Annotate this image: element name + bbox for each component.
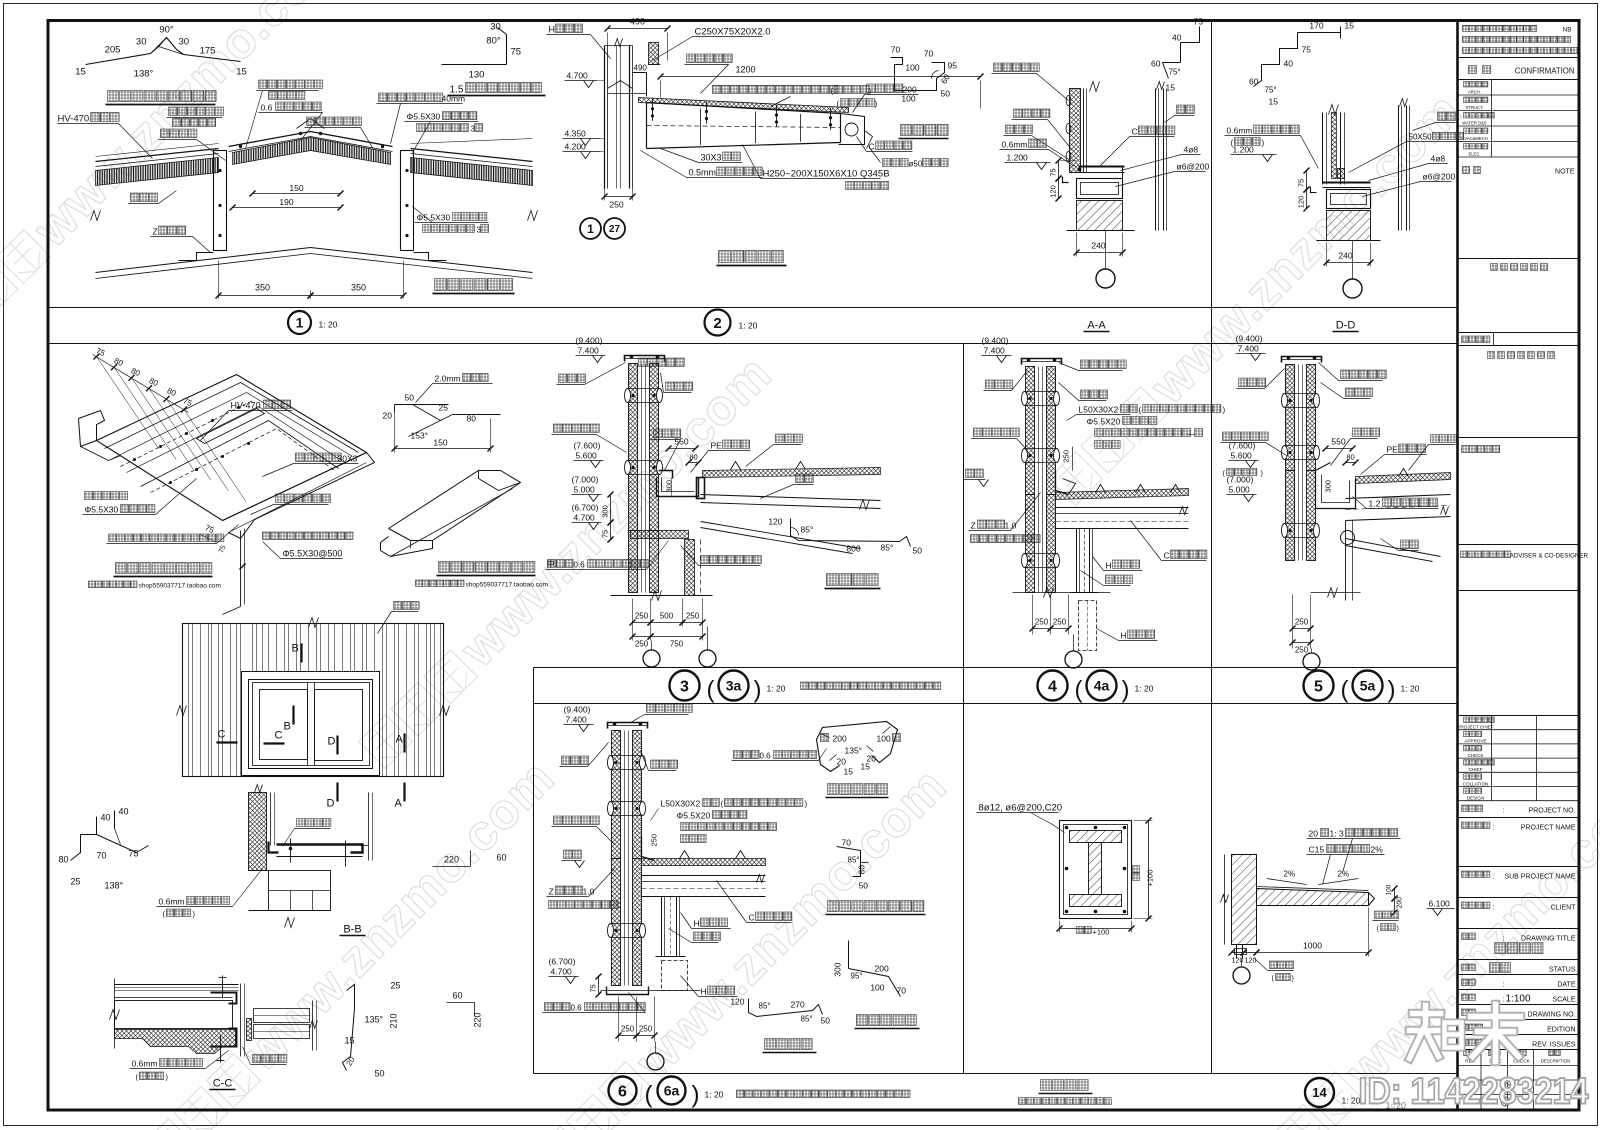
3D view: roof gutter eave node xyxy=(93,355,189,413)
svg-text:75: 75 xyxy=(589,984,598,992)
svg-text:1: 20: 1: 20 xyxy=(319,320,338,330)
svg-text:B: B xyxy=(284,721,291,733)
svg-text:85°: 85° xyxy=(801,525,814,535)
svg-text:60: 60 xyxy=(1249,77,1259,87)
circled 1 xyxy=(288,311,311,334)
svg-text:0.6mm: 0.6mm xyxy=(1227,126,1253,136)
svg-text:): ) xyxy=(1388,677,1396,704)
svg-text:138°: 138° xyxy=(134,69,154,80)
svg-text:+100: +100 xyxy=(1146,870,1155,887)
band note after 3 xyxy=(801,682,941,690)
svg-text:100: 100 xyxy=(901,94,915,104)
svg-text:550: 550 xyxy=(1331,437,1345,447)
svg-text:C: C xyxy=(869,142,875,152)
svg-text:135°: 135° xyxy=(365,1015,384,1025)
svg-text:6a: 6a xyxy=(664,1083,680,1099)
svg-text:PROJECT NO.: PROJECT NO. xyxy=(1529,808,1576,815)
svg-text:4.700: 4.700 xyxy=(567,71,589,81)
svg-text:80: 80 xyxy=(689,453,697,462)
svg-text:(: ( xyxy=(837,100,840,109)
svg-text:30: 30 xyxy=(179,37,190,48)
svg-text:1000: 1000 xyxy=(1303,941,1322,951)
svg-text:350: 350 xyxy=(351,283,366,293)
divider: top title band bottom xyxy=(48,343,1458,345)
svg-text:(6.700): (6.700) xyxy=(572,503,599,513)
svg-text:15: 15 xyxy=(861,762,871,772)
svg-text:2%: 2% xyxy=(1371,845,1384,855)
svg-text:135°: 135° xyxy=(845,746,863,756)
svg-text:14: 14 xyxy=(1312,1085,1327,1100)
svg-text:4.200: 4.200 xyxy=(565,142,587,152)
svg-text:138°: 138° xyxy=(105,881,124,891)
svg-text:60: 60 xyxy=(1151,59,1161,69)
svg-text:40: 40 xyxy=(1284,59,1294,69)
svg-text:750: 750 xyxy=(670,640,684,649)
svg-text:): ) xyxy=(1397,926,1399,933)
svg-text:15: 15 xyxy=(1269,97,1279,107)
svg-text:250: 250 xyxy=(1062,450,1071,463)
svg-text::: : xyxy=(1503,808,1505,815)
flat-seal profile (right of panel 3) xyxy=(791,519,900,542)
circled 4 (4a) xyxy=(1038,671,1068,701)
svg-text:C: C xyxy=(1132,127,1138,137)
svg-text:L50X30X2: L50X30X2 xyxy=(661,799,701,809)
svg-text:(: ( xyxy=(721,800,724,809)
svg-text:H: H xyxy=(1106,561,1112,571)
svg-text:70: 70 xyxy=(97,851,107,861)
svg-text:): ) xyxy=(1223,406,1226,415)
svg-text:(7.000): (7.000) xyxy=(1227,475,1254,485)
seal trim profile (panel 6) xyxy=(749,999,823,1017)
svg-text:550: 550 xyxy=(674,437,688,447)
svg-text:COLLATION: COLLATION xyxy=(1463,781,1489,786)
svg-text:Φ5.5X30: Φ5.5X30 xyxy=(85,505,119,515)
svg-text:120: 120 xyxy=(1297,196,1306,209)
svg-text:DATE: DATE xyxy=(1557,982,1575,989)
svg-text:50: 50 xyxy=(375,1069,385,1079)
svg-text:shop559037717.taobao.com: shop559037717.taobao.com xyxy=(466,582,548,589)
svg-text:WATER D&S: WATER D&S xyxy=(1462,121,1487,126)
svg-text:120: 120 xyxy=(730,997,744,1007)
svg-text:205: 205 xyxy=(105,45,121,56)
svg-text:0.5mm: 0.5mm xyxy=(689,168,717,178)
mini gutter title xyxy=(901,125,949,136)
parapet cap label xyxy=(734,751,760,759)
svg-text:4.700: 4.700 xyxy=(551,967,573,977)
svg-text:7.400: 7.400 xyxy=(1238,344,1260,354)
svg-text::: : xyxy=(1503,982,1505,989)
svg-text:0.6mm: 0.6mm xyxy=(132,1059,158,1069)
svg-text:270: 270 xyxy=(791,1000,805,1010)
svg-text:—: — xyxy=(1187,430,1195,439)
B-B section xyxy=(249,793,267,871)
svg-text:D-D: D-D xyxy=(1336,320,1356,332)
svg-text:120: 120 xyxy=(1049,185,1058,198)
svg-text:HVAC&MECH: HVAC&MECH xyxy=(1461,136,1487,141)
svg-text:5: 5 xyxy=(1314,678,1323,695)
svg-text:300: 300 xyxy=(1324,480,1333,493)
svg-text:0.6: 0.6 xyxy=(574,561,586,570)
svg-text:20: 20 xyxy=(383,411,393,421)
svg-text:60: 60 xyxy=(497,853,507,863)
svg-text:): ) xyxy=(1122,677,1130,704)
svg-text:A: A xyxy=(395,798,403,810)
svg-text:25: 25 xyxy=(391,981,401,991)
svg-text:4.350: 4.350 xyxy=(565,129,587,139)
svg-text:(9.400): (9.400) xyxy=(982,336,1009,346)
svg-text:250: 250 xyxy=(650,834,659,847)
panel 1 main ridge section drawing xyxy=(96,149,219,162)
flashing profile near C-C xyxy=(347,985,355,1009)
svg-text:ø6@200: ø6@200 xyxy=(1177,162,1210,172)
gable support title xyxy=(828,901,924,912)
svg-text:20: 20 xyxy=(1309,829,1319,839)
svg-text:Z: Z xyxy=(153,227,158,237)
svg-text:H: H xyxy=(701,987,707,997)
divider: middle title band xyxy=(534,667,1458,669)
3D view: eave support trim detail xyxy=(395,404,449,406)
svg-text::: : xyxy=(1499,446,1501,455)
svg-text:6: 6 xyxy=(618,1083,627,1100)
svg-text:4ø8: 4ø8 xyxy=(1431,154,1446,164)
registration plus marks xyxy=(1501,1083,1510,1092)
svg-text:220: 220 xyxy=(444,855,459,865)
svg-text:250: 250 xyxy=(635,640,649,649)
svg-text:DESIGN: DESIGN xyxy=(1467,796,1485,801)
svg-text:800: 800 xyxy=(846,544,860,554)
svg-text:250: 250 xyxy=(635,612,649,621)
svg-text:(: ( xyxy=(1139,406,1142,415)
svg-text:20: 20 xyxy=(837,757,847,767)
svg-text:70: 70 xyxy=(891,45,901,55)
profile small mid-left xyxy=(81,817,97,835)
svg-text:Z: Z xyxy=(971,521,976,531)
svg-text:90°: 90° xyxy=(159,25,174,36)
svg-text:15: 15 xyxy=(345,1036,355,1046)
svg-text:A: A xyxy=(396,734,404,746)
svg-text:(7.600): (7.600) xyxy=(574,441,601,451)
svg-text:): ) xyxy=(805,800,808,809)
section D-D xyxy=(1298,32,1341,34)
svg-text:85°: 85° xyxy=(801,1015,813,1024)
svg-text:250: 250 xyxy=(1035,618,1049,627)
svg-text:D: D xyxy=(328,736,336,748)
svg-text:250: 250 xyxy=(639,1025,653,1034)
C-C section xyxy=(115,984,239,986)
svg-text:1.2: 1.2 xyxy=(1369,499,1381,509)
steel column wrap section xyxy=(1060,821,1132,919)
svg-text:300: 300 xyxy=(665,480,674,493)
circled 5 (5a) xyxy=(1304,671,1334,701)
svg-text:8ø12, ø6@200,C20: 8ø12, ø6@200,C20 xyxy=(979,803,1063,814)
svg-text:500: 500 xyxy=(660,612,674,621)
svg-text:85°: 85° xyxy=(759,1002,771,1011)
svg-text:130: 130 xyxy=(469,70,485,81)
svg-text:0.6: 0.6 xyxy=(760,752,772,761)
divider: top row bottom xyxy=(48,307,1458,309)
svg-text:100: 100 xyxy=(905,63,919,73)
svg-text:5.000: 5.000 xyxy=(574,485,596,495)
svg-text:170: 170 xyxy=(1309,21,1323,31)
svg-text:250: 250 xyxy=(609,200,623,210)
svg-text:75: 75 xyxy=(1297,179,1306,187)
svg-text:153°: 153° xyxy=(411,431,429,441)
svg-text:1200: 1200 xyxy=(735,65,755,75)
svg-text:1: 20: 1: 20 xyxy=(739,321,758,331)
svg-text:490: 490 xyxy=(630,17,645,27)
svg-text:H: H xyxy=(1121,631,1127,641)
svg-text:ID: 1142283214: ID: 1142283214 xyxy=(1359,1071,1589,1112)
title block xyxy=(1463,25,1537,31)
svg-text:75: 75 xyxy=(511,47,522,58)
svg-text:200: 200 xyxy=(875,964,889,974)
svg-text::: : xyxy=(1493,905,1495,912)
svg-text:30: 30 xyxy=(136,37,147,48)
svg-text:3: 3 xyxy=(680,678,689,695)
svg-text:1: 20: 1: 20 xyxy=(1135,684,1154,694)
svg-text:(6.700): (6.700) xyxy=(549,957,576,967)
svg-text:(: ( xyxy=(831,87,834,96)
svg-text:75: 75 xyxy=(1194,17,1204,27)
panel 1b: ridge support profile xyxy=(506,35,508,65)
svg-text:150: 150 xyxy=(289,183,303,193)
svg-text:C: C xyxy=(1164,551,1170,561)
svg-text:2: 2 xyxy=(713,315,721,332)
svg-text:300: 300 xyxy=(601,505,610,518)
seal trim title (panel 6) xyxy=(765,1039,813,1050)
svg-text:: ADVISER & CO-DESIGNER: : ADVISER & CO-DESIGNER xyxy=(1507,553,1589,560)
svg-text:220: 220 xyxy=(473,1012,483,1027)
svg-text:4.700: 4.700 xyxy=(574,513,596,523)
svg-text:Z: Z xyxy=(549,887,554,897)
svg-text:240: 240 xyxy=(1091,241,1105,251)
svg-text:80: 80 xyxy=(59,855,69,865)
svg-text:7.400: 7.400 xyxy=(566,715,588,725)
svg-text:(9.400): (9.400) xyxy=(1236,334,1263,344)
svg-text:30: 30 xyxy=(490,22,501,33)
svg-text:C250X75X20X2.0: C250X75X20X2.0 xyxy=(695,27,771,38)
svg-text::: : xyxy=(1478,167,1480,176)
svg-text:250: 250 xyxy=(1295,618,1309,627)
svg-text:D: D xyxy=(327,798,335,810)
circled 3 (3a) xyxy=(670,671,700,701)
svg-text:190: 190 xyxy=(279,197,293,207)
svg-text:PE: PE xyxy=(1387,445,1399,455)
svg-text:SCALE: SCALE xyxy=(1553,997,1576,1004)
svg-text:ELEC.: ELEC. xyxy=(1468,152,1480,157)
svg-text:75: 75 xyxy=(1049,168,1058,176)
svg-text:70: 70 xyxy=(897,986,907,996)
svg-text:0.6: 0.6 xyxy=(261,103,273,113)
svg-text:7.400: 7.400 xyxy=(984,346,1006,356)
svg-text:85°: 85° xyxy=(881,543,894,553)
svg-text:50: 50 xyxy=(941,89,951,99)
svg-text:): ) xyxy=(875,100,878,109)
panel 2 title xyxy=(719,251,784,263)
svg-text:): ) xyxy=(754,677,762,704)
svg-text:C: C xyxy=(749,913,755,923)
svg-text::: : xyxy=(1493,874,1495,881)
svg-text:): ) xyxy=(1262,139,1265,148)
circled 2 xyxy=(705,310,731,336)
svg-text:HV-470: HV-470 xyxy=(231,401,261,411)
svg-text:A-A: A-A xyxy=(1087,320,1106,332)
svg-text:DRAWING NO.: DRAWING NO. xyxy=(1528,1012,1576,1019)
svg-text:70: 70 xyxy=(924,49,934,59)
svg-text:30X3: 30X3 xyxy=(338,454,358,464)
svg-text:40: 40 xyxy=(119,807,129,817)
svg-text:APPROVE: APPROVE xyxy=(1464,739,1486,744)
svg-text:NOTE: NOTE xyxy=(1555,169,1575,176)
svg-text:5.000: 5.000 xyxy=(1229,485,1251,495)
svg-text:): ) xyxy=(1292,976,1294,983)
svg-text:80°: 80° xyxy=(486,36,501,47)
svg-text:250: 250 xyxy=(621,1025,635,1034)
section A-A xyxy=(1199,27,1201,43)
panel 1 section title xyxy=(435,279,513,291)
svg-text:1: 20: 1: 20 xyxy=(1401,684,1420,694)
svg-text:(7.000): (7.000) xyxy=(572,475,599,485)
svg-text:120: 120 xyxy=(768,517,782,527)
svg-text:85°: 85° xyxy=(848,856,860,865)
svg-text:(: ( xyxy=(1231,139,1234,148)
svg-text:70: 70 xyxy=(842,838,852,848)
svg-text:95°: 95° xyxy=(851,972,863,981)
gable flashing profile xyxy=(848,941,850,969)
svg-text:15: 15 xyxy=(236,67,247,78)
parapet cap mini profile xyxy=(817,722,898,772)
svg-text:40: 40 xyxy=(101,813,111,823)
svg-text:(: ( xyxy=(1075,677,1083,704)
svg-text:0.6: 0.6 xyxy=(571,1004,583,1013)
divider vertical left of middle band xyxy=(533,668,535,1074)
wall elevation with window xyxy=(183,624,444,777)
svg-text:100: 100 xyxy=(1386,884,1393,895)
svg-text:75: 75 xyxy=(129,849,139,859)
svg-text:): ) xyxy=(692,1082,700,1109)
3D view 1 title xyxy=(116,563,212,574)
svg-text:210: 210 xyxy=(389,1013,399,1028)
svg-text:(: ( xyxy=(1341,677,1349,704)
svg-text:L50X30X2: L50X30X2 xyxy=(1079,405,1119,415)
parapet cap title xyxy=(828,784,888,795)
svg-text:100: 100 xyxy=(877,734,891,744)
svg-text:240: 240 xyxy=(1338,251,1352,261)
svg-text:4ø8: 4ø8 xyxy=(1184,145,1199,155)
steel column treatment title xyxy=(1041,1080,1089,1091)
svg-text::: : xyxy=(1503,997,1505,1004)
svg-text:REV. ISSUES: REV. ISSUES xyxy=(1532,1042,1576,1049)
svg-text:PROJECT CHIEF: PROJECT CHIEF xyxy=(1457,725,1494,730)
svg-text:1:100: 1:100 xyxy=(1506,994,1531,1005)
svg-text:6.100: 6.100 xyxy=(1429,899,1451,909)
svg-text:4: 4 xyxy=(1048,678,1057,695)
panel 1: ridge flashing cover profile xyxy=(86,38,241,65)
svg-text:(: ( xyxy=(707,677,715,704)
svg-text:Φ5.5X20: Φ5.5X20 xyxy=(677,811,711,821)
mini profile color-steel gutter xyxy=(891,58,945,91)
svg-text:27: 27 xyxy=(609,224,621,235)
svg-text:Φ5.5X20: Φ5.5X20 xyxy=(1087,417,1121,427)
svg-text:H: H xyxy=(549,25,556,35)
svg-text:25: 25 xyxy=(439,403,449,413)
svg-text:(: ( xyxy=(645,1082,653,1109)
svg-text:15: 15 xyxy=(1166,83,1176,93)
band note after 6 xyxy=(737,1090,911,1098)
svg-text:95: 95 xyxy=(948,61,958,71)
svg-text:ø6@200: ø6@200 xyxy=(1423,172,1456,182)
panel 1 title: ridge cover detail xyxy=(108,91,217,102)
svg-text:PE: PE xyxy=(711,441,723,451)
circled 6 (6a) xyxy=(609,1077,637,1105)
svg-text:ARCH.: ARCH. xyxy=(1468,90,1481,95)
svg-text:H: H xyxy=(694,919,700,929)
svg-text:B: B xyxy=(292,643,299,655)
svg-text:STRUCT.: STRUCT. xyxy=(1466,105,1484,110)
svg-text:50: 50 xyxy=(821,1016,831,1026)
svg-text:1: 20: 1: 20 xyxy=(705,1090,724,1100)
svg-text:25: 25 xyxy=(71,877,81,887)
svg-text:490: 490 xyxy=(634,64,648,73)
svg-text::: : xyxy=(1493,825,1495,832)
gable flashing title xyxy=(857,1015,917,1026)
svg-text:(9.400): (9.400) xyxy=(576,336,603,346)
svg-text:175: 175 xyxy=(200,46,216,57)
svg-text:Φ5.5X30@500: Φ5.5X30@500 xyxy=(283,549,343,559)
svg-text:5.600: 5.600 xyxy=(576,451,598,461)
svg-text:1.200: 1.200 xyxy=(1007,153,1029,163)
divider vertical between A-A / D-D and panels 4/5 xyxy=(1211,21,1213,1074)
svg-text:200: 200 xyxy=(833,734,847,744)
svg-text:CHIEF: CHIEF xyxy=(1469,767,1483,772)
svg-text:40: 40 xyxy=(1172,33,1182,43)
svg-text:DESCRIPTION: DESCRIPTION xyxy=(1541,1059,1570,1064)
svg-text:50: 50 xyxy=(913,546,923,556)
svg-text:5a: 5a xyxy=(1360,678,1376,694)
svg-text:100: 100 xyxy=(870,983,884,993)
svg-text:CONFIRMATION: CONFIRMATION xyxy=(1515,67,1575,76)
svg-text:SUB PROJECT NAME: SUB PROJECT NAME xyxy=(1504,874,1575,881)
svg-text:(9.400): (9.400) xyxy=(564,705,591,715)
svg-text:STATUS: STATUS xyxy=(1549,967,1576,974)
svg-text:+100: +100 xyxy=(1093,928,1110,937)
svg-text:50: 50 xyxy=(859,881,869,891)
svg-text:50X50: 50X50 xyxy=(1409,133,1433,142)
gable flashing support profile xyxy=(837,847,861,877)
svg-text:60: 60 xyxy=(453,991,463,1001)
3D view 2 title xyxy=(439,562,535,573)
svg-text:C: C xyxy=(275,730,283,742)
svg-text:50: 50 xyxy=(405,393,415,403)
svg-text:30X3: 30X3 xyxy=(701,153,722,163)
svg-text:H250~200X150X6X10 Q345B: H250~200X150X6X10 Q345B xyxy=(763,169,890,180)
svg-text:NB: NB xyxy=(1563,27,1572,34)
svg-text:B-B: B-B xyxy=(343,924,361,936)
svg-text:250: 250 xyxy=(1053,618,1067,627)
svg-text:1: 1 xyxy=(296,315,304,331)
svg-text::: : xyxy=(1503,936,1505,943)
svg-text:C-C: C-C xyxy=(213,1078,233,1090)
svg-text:7.400: 7.400 xyxy=(578,346,600,356)
svg-text:80: 80 xyxy=(1346,453,1354,462)
svg-text:HV-470: HV-470 xyxy=(58,114,90,125)
svg-text:CLIENT: CLIENT xyxy=(1551,905,1577,912)
svg-text:C: C xyxy=(218,729,226,741)
svg-text:CHECK: CHECK xyxy=(1467,753,1484,758)
svg-text:350: 350 xyxy=(255,283,270,293)
svg-text:): ) xyxy=(1261,471,1263,478)
svg-text:75: 75 xyxy=(601,530,610,538)
